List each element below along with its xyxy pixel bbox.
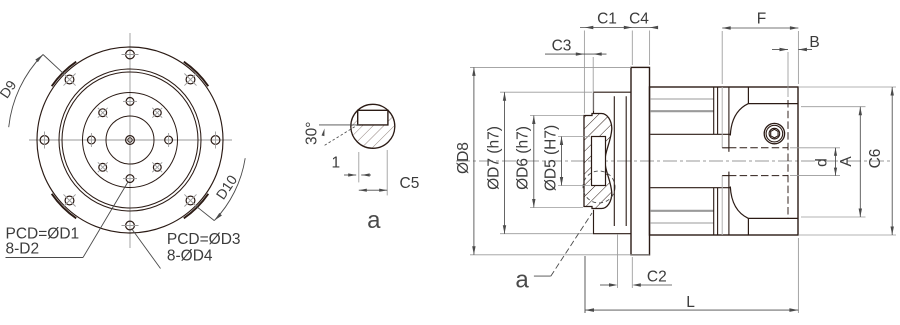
svg-text:C1: C1 — [597, 11, 617, 28]
front boss ring — [594, 92, 632, 234]
detail a: shaft section circle with hatch — [351, 110, 395, 148]
dim F — [721, 31, 723, 84]
svg-text:F: F — [757, 11, 766, 28]
dim D7 — [500, 91, 592, 93]
rear housing inner fillets — [730, 104, 748, 136]
dimension D10 — [214, 158, 245, 220]
input bore entrance lips — [722, 147, 729, 149]
svg-text:B: B — [809, 34, 819, 51]
dim d — [790, 147, 840, 149]
boss double circle — [59, 69, 201, 211]
8 outer mounting holes 8-D4 — [126, 50, 135, 59]
svg-text:C2: C2 — [647, 269, 667, 286]
svg-text:a: a — [515, 267, 529, 294]
svg-text:d: d — [814, 158, 831, 167]
svg-text:C3: C3 — [552, 38, 572, 55]
hidden input bore (dashed) — [729, 147, 788, 149]
detail a: dim C5 keyway width — [386, 150, 388, 195]
ring gear lines — [650, 98, 714, 100]
gear housing outline — [650, 87, 799, 235]
dim D8 — [470, 66, 631, 68]
svg-text:C5: C5 — [400, 175, 420, 192]
dim C3 — [583, 31, 585, 114]
svg-text:a: a — [367, 207, 381, 234]
output flange section (hatched) — [584, 114, 612, 209]
dim B — [787, 52, 789, 97]
dim C6 — [798, 86, 896, 88]
dim C4 — [650, 26, 659, 29]
dim C1 — [631, 31, 633, 66]
body corner arcs behind flange — [184, 194, 209, 219]
svg-text:ØD7 (h7): ØD7 (h7) — [486, 126, 503, 190]
detail a: keyway slot — [358, 110, 388, 125]
dim C2 — [617, 234, 619, 288]
svg-text:8-ØD4: 8-ØD4 — [167, 247, 213, 264]
centerlines of front view — [129, 33, 131, 248]
outer flange circle — [37, 47, 223, 233]
mounting flange plate — [631, 67, 650, 254]
detail circle a (dashed) — [583, 171, 615, 203]
dim A — [801, 106, 866, 108]
clamp screw — [764, 123, 784, 143]
svg-text:L: L — [686, 294, 695, 311]
detail a: 30 degree angle dimension — [319, 124, 359, 126]
svg-text:A: A — [838, 156, 855, 167]
svg-text:C6: C6 — [867, 149, 884, 169]
main horizontal centerline — [456, 160, 893, 162]
center hole — [126, 136, 135, 145]
svg-text:C4: C4 — [629, 11, 649, 28]
output flange bore D5 — [592, 137, 606, 186]
pilot circle — [106, 116, 154, 164]
svg-text:ØD8: ØD8 — [455, 142, 472, 174]
dim L — [584, 256, 586, 313]
svg-text:PCD=ØD3: PCD=ØD3 — [167, 231, 241, 248]
svg-text:1: 1 — [331, 155, 340, 172]
svg-text:8-D2: 8-D2 — [6, 241, 40, 258]
dim D6 — [530, 115, 583, 117]
8 tapped holes 8-D2 — [126, 98, 134, 106]
dim D5 — [558, 136, 590, 138]
housing joint lines — [713, 87, 715, 134]
inner boss circle — [83, 93, 178, 188]
detail a: dim 1 — [358, 152, 360, 182]
rear housing cavity ceiling and floor — [747, 88, 749, 104]
svg-text:30°: 30° — [304, 122, 321, 145]
dimension D9 — [9, 55, 43, 128]
svg-text:ØD5 (H7): ØD5 (H7) — [543, 125, 560, 191]
svg-text:ØD6 (h7): ØD6 (h7) — [515, 126, 532, 190]
